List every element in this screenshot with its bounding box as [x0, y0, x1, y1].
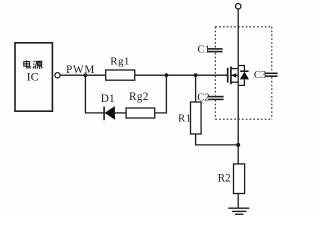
wire R1 branch down: [195, 75, 197, 102]
wire R1 to source node: [196, 134, 239, 145]
label R1: [178, 113, 192, 125]
PWM output terminal circle: [55, 73, 60, 78]
power IC box U1: [15, 43, 52, 111]
label C3: [254, 70, 266, 81]
label 电源 (power): [24, 60, 43, 69]
svg-text:C3: C3: [254, 70, 266, 81]
svg-text:Rg1: Rg1: [110, 56, 130, 68]
svg-text:C2: C2: [197, 93, 209, 104]
svg-text:IC: IC: [27, 69, 39, 83]
dashed left leg (Cgd/Cgs): [214, 27, 216, 119]
label Rg2: [129, 91, 149, 103]
svg-text:Rg2: Rg2: [129, 91, 149, 103]
resistor Rg2: [126, 108, 155, 118]
wire D1 to Rg2: [115, 112, 127, 114]
dashed parasitic box bottom: [215, 118, 271, 120]
resistor R1: [191, 102, 202, 134]
body diode of Q1: [238, 66, 249, 86]
label Rg1: [110, 56, 130, 68]
capacitor C3: [265, 73, 278, 76]
wire Rg2 return to gate bus: [155, 75, 167, 113]
resistor Rg1: [106, 70, 135, 80]
terminal drain circle: [236, 4, 241, 9]
transistor Q1 body arrow: [231, 73, 238, 78]
transistor Q1 channel bar: [230, 66, 232, 84]
wire gate bus horizontal: [60, 74, 227, 76]
transistor Q1 drain stub: [231, 68, 238, 70]
label IC: [27, 69, 39, 83]
svg-text:R1: R1: [178, 113, 192, 125]
svg-text:R2: R2: [218, 173, 231, 185]
wire drain vertical: [237, 9, 239, 164]
svg-text:PWM: PWM: [66, 64, 95, 76]
resistor R2: [234, 164, 245, 194]
label PWM: [66, 64, 95, 76]
svg-text:C1: C1: [198, 45, 210, 56]
transistor Q1 source stub: [231, 81, 238, 83]
transistor Q1 MOSFET gate bar: [227, 68, 229, 83]
dashed parasitic box top: [215, 26, 271, 28]
dashed right leg (Cds): [271, 27, 273, 119]
wire R2 to ground: [237, 194, 239, 209]
diode D1: [104, 106, 115, 120]
wire D1 branch left leg: [85, 75, 103, 113]
capacitor C2: [208, 97, 223, 100]
ground: [228, 208, 249, 214]
label C1: [198, 45, 210, 56]
label C2: [197, 93, 209, 104]
capacitor C1: [208, 49, 223, 52]
node junction Rg2 return: [165, 73, 169, 77]
node junction R1 branch: [194, 73, 198, 77]
node junction source R1 R2: [236, 143, 240, 147]
label R2: [218, 173, 231, 185]
svg-text:D1: D1: [101, 93, 115, 105]
node junction at PWM branch: [84, 73, 88, 77]
label D1: [101, 93, 115, 105]
